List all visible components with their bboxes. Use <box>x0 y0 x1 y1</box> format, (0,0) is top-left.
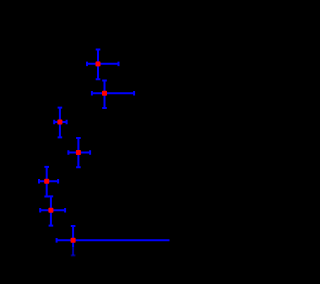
marker point 4 <box>76 150 81 155</box>
marker point 1 <box>96 61 101 66</box>
marker point 6 <box>48 208 53 213</box>
error bars point 5 <box>39 167 58 197</box>
marker point 2 <box>102 91 107 96</box>
error bars point 1 <box>87 50 119 80</box>
marker point 3 <box>57 120 62 125</box>
error bars point 7 <box>57 226 170 255</box>
error bars point 4 <box>68 138 90 167</box>
error bars point 3 <box>54 108 66 138</box>
error bars point 2 <box>92 81 134 109</box>
marker point 7 <box>71 238 76 243</box>
error bars point 6 <box>40 196 65 225</box>
marker point 5 <box>44 179 49 184</box>
